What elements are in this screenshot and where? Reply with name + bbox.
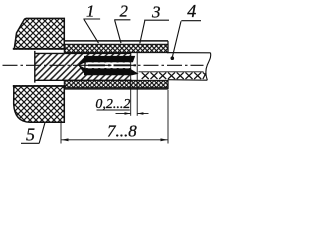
svg-text:3: 3	[151, 3, 161, 22]
svg-text:2: 2	[120, 2, 128, 21]
svg-text:1: 1	[86, 1, 95, 20]
svg-text:7...8: 7...8	[107, 122, 137, 141]
svg-text:4: 4	[187, 1, 196, 21]
svg-text:5: 5	[26, 125, 35, 145]
